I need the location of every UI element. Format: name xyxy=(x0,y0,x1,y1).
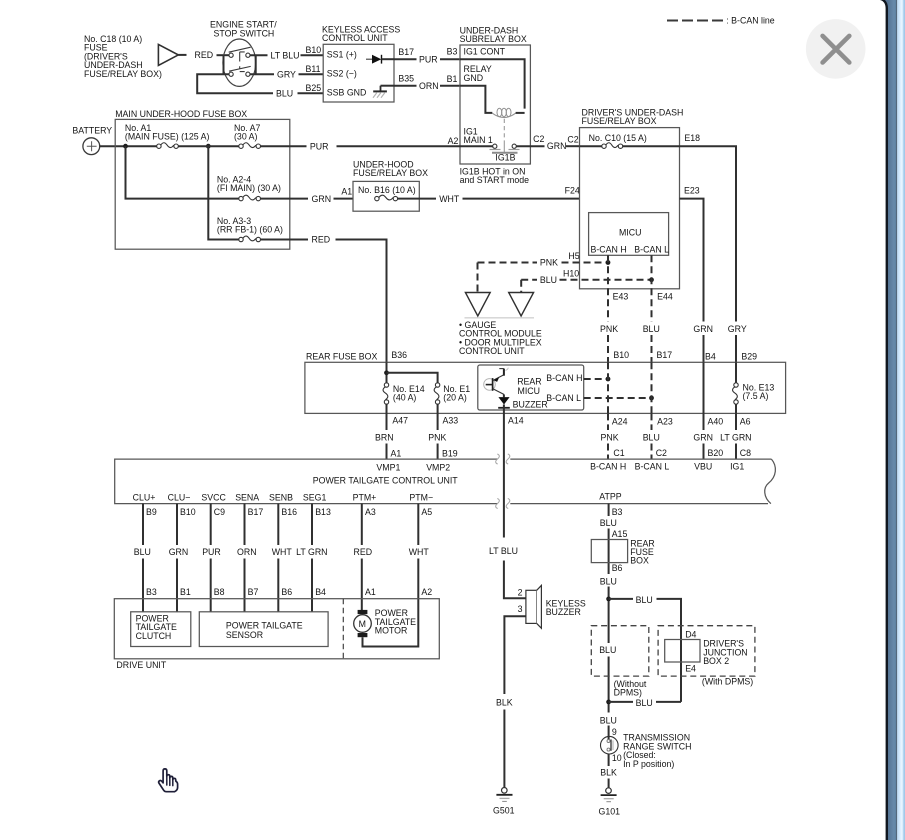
junction dot H5 xyxy=(606,260,611,265)
keyless access control unit title xyxy=(322,24,400,43)
svg-text:GRY: GRY xyxy=(277,69,296,79)
svg-text:(40 A): (40 A) xyxy=(393,393,417,403)
junction dot B-CAN L xyxy=(649,396,654,401)
fuse A1 symbol xyxy=(157,143,179,149)
svg-text:BLU: BLU xyxy=(599,645,616,655)
wire BLU branch to D4 xyxy=(609,599,681,702)
svg-text:IG1 CONT: IG1 CONT xyxy=(464,47,506,57)
switch upper link xyxy=(240,52,245,62)
svg-text:B17: B17 xyxy=(398,47,414,57)
svg-text:B10: B10 xyxy=(306,45,322,55)
junction dot BLU branch 1 xyxy=(606,597,611,602)
wire battery to box xyxy=(100,145,157,147)
switch right bus xyxy=(255,55,257,74)
driver's under-dash fuse/relay box xyxy=(580,128,680,289)
wire B17 ORN xyxy=(244,504,246,612)
wire B16 WHT xyxy=(277,504,279,612)
wire BLU dashed in rear box xyxy=(651,362,653,413)
engine start/stop switch ellipse xyxy=(223,39,256,86)
switch left bus xyxy=(223,55,225,74)
wire PNK dashed in rear box xyxy=(607,362,609,413)
power tailgate sensor box xyxy=(199,612,328,647)
svg-text:B36: B36 xyxy=(391,350,407,360)
wire A2-4 out to GRN xyxy=(261,198,309,200)
fuse A3-3 label xyxy=(217,216,283,235)
svg-text:GND: GND xyxy=(464,73,484,83)
svg-text:GRN: GRN xyxy=(169,547,189,557)
junction dot BLU branch 2 xyxy=(606,700,611,705)
ground symbol SSB GND xyxy=(373,86,387,98)
with DPMS dashed box xyxy=(658,626,755,676)
svg-text:9: 9 xyxy=(612,727,617,737)
svg-text:PNK: PNK xyxy=(600,324,618,334)
svg-text:CONTROL UNIT: CONTROL UNIT xyxy=(459,346,525,356)
wire A24 PNK dashed to C1 xyxy=(607,413,609,459)
svg-text:BOX 2: BOX 2 xyxy=(703,656,729,666)
svg-text:ATPP: ATPP xyxy=(599,491,621,501)
wire relay out C2 xyxy=(516,145,544,147)
svg-text:In P position): In P position) xyxy=(623,759,674,769)
svg-text:PTM+: PTM+ xyxy=(353,493,377,503)
wire buzzer drive to A14 xyxy=(503,405,505,456)
wire BLU L-run xyxy=(197,74,273,93)
svg-text:BLU: BLU xyxy=(540,275,557,285)
svg-text:BLK: BLK xyxy=(496,698,513,708)
svg-text:WHT: WHT xyxy=(439,194,460,204)
svg-text:POWER TAILGATE CONTROL UNIT: POWER TAILGATE CONTROL UNIT xyxy=(313,475,458,485)
wire H10 drop dashed xyxy=(520,280,522,292)
svg-text:MOTOR: MOTOR xyxy=(375,626,408,636)
svg-text:No. B16 (10 A): No. B16 (10 A) xyxy=(358,185,416,195)
wire A7 out to PUR xyxy=(261,145,307,147)
wire GRY row xyxy=(250,73,274,75)
svg-text:B17: B17 xyxy=(248,507,264,517)
svg-text:RED: RED xyxy=(354,547,373,557)
svg-text:B25: B25 xyxy=(306,83,322,93)
svg-text:2: 2 xyxy=(518,587,523,597)
svg-text:C1: C1 xyxy=(613,448,624,458)
note without DPMS xyxy=(614,679,647,698)
svg-text:WHT: WHT xyxy=(272,547,293,557)
fuse A1 label xyxy=(125,123,210,142)
label REAR MICU xyxy=(517,376,541,396)
fuse E13 symbol xyxy=(733,383,739,404)
svg-text:DPMS): DPMS) xyxy=(614,688,642,698)
svg-text:MAIN 1: MAIN 1 xyxy=(464,135,493,145)
svg-text:REAR FUSE BOX: REAR FUSE BOX xyxy=(306,352,377,362)
rear fuse box (wide) xyxy=(305,362,786,413)
svg-text:B10: B10 xyxy=(180,507,196,517)
relay actuator lower xyxy=(503,142,505,153)
svg-text:FUSE/RELAY BOX: FUSE/RELAY BOX xyxy=(353,168,428,178)
svg-text:MICU: MICU xyxy=(619,227,641,237)
fuse E14 symbol xyxy=(383,383,389,404)
svg-text:A1: A1 xyxy=(341,187,352,197)
svg-text:SS1 (+): SS1 (+) xyxy=(327,50,357,60)
rear fuse box small xyxy=(591,540,627,563)
svg-text:G501: G501 xyxy=(493,806,515,816)
wire relay gnd to coil xyxy=(460,86,492,113)
svg-text:B-CAN H: B-CAN H xyxy=(590,461,626,471)
svg-text:GRY: GRY xyxy=(728,324,747,334)
junction dot B-CAN H xyxy=(606,377,611,382)
svg-text:C2: C2 xyxy=(533,134,544,144)
svg-text:B8: B8 xyxy=(214,587,225,597)
svg-text:B35: B35 xyxy=(398,74,414,84)
fuse feed triangle symbol xyxy=(158,44,178,65)
svg-text:PUR: PUR xyxy=(419,54,438,64)
svg-text:PNK: PNK xyxy=(601,433,619,443)
wire E18 to GRY vertical xyxy=(680,146,737,321)
wire trs to BLK xyxy=(608,754,610,788)
driver's under-dash fuse/relay box title xyxy=(582,107,684,126)
svg-text:PNK: PNK xyxy=(540,258,558,268)
svg-text:(With DPMS): (With DPMS) xyxy=(702,677,753,687)
wire A40 GRN to B20 xyxy=(703,413,705,459)
under-dash subrelay box title xyxy=(460,25,527,44)
svg-text:C2: C2 xyxy=(656,448,667,458)
wire B9 BLU xyxy=(142,504,144,612)
svg-text:BOX: BOX xyxy=(630,555,649,565)
svg-text:LT BLU: LT BLU xyxy=(271,50,300,60)
transistor Q rear micu xyxy=(484,368,508,395)
wire GRN to C2 xyxy=(566,145,580,147)
svg-text:VMP1: VMP1 xyxy=(376,462,400,472)
wire WHT to F24 xyxy=(463,198,580,200)
svg-text:B3: B3 xyxy=(146,587,157,597)
svg-text:BLK: BLK xyxy=(600,767,617,777)
svg-text:B9: B9 xyxy=(146,507,157,517)
svg-text:RED: RED xyxy=(195,50,214,60)
svg-text:G101: G101 xyxy=(599,806,621,816)
svg-text:A40: A40 xyxy=(708,416,724,426)
svg-text:B-CAN H: B-CAN H xyxy=(546,373,582,383)
wire A6 LT GRN to C8 xyxy=(735,413,737,459)
wire C2 into fuse xyxy=(580,145,602,147)
svg-text:SS2 (−): SS2 (−) xyxy=(327,69,357,79)
arrow triangle gauge 1 xyxy=(465,293,490,317)
svg-text:B-CAN L: B-CAN L xyxy=(635,461,670,471)
wire buzzer pin3 to BLK xyxy=(504,616,526,787)
window edge blue strip xyxy=(881,0,905,840)
svg-text:BRN: BRN xyxy=(375,433,394,443)
junction dot H10 xyxy=(649,277,654,282)
svg-text:BLU: BLU xyxy=(643,324,660,334)
svg-text:(7.5 A): (7.5 A) xyxy=(743,391,769,401)
hop marks top edge xyxy=(496,454,510,464)
svg-text:ORN: ORN xyxy=(419,81,439,91)
wire A3 RED xyxy=(361,504,363,610)
svg-text:BLU: BLU xyxy=(643,433,660,443)
transmission range switch symbol xyxy=(601,736,619,754)
svg-text:B7: B7 xyxy=(248,587,259,597)
under-hood fuse/relay box title xyxy=(353,159,428,178)
wire E1 to A33 xyxy=(437,404,439,430)
svg-text:A23: A23 xyxy=(657,416,673,426)
keyless buzzer label xyxy=(546,598,586,617)
wire branch to E1 xyxy=(387,373,438,383)
svg-text:FUSE/RELAY BOX: FUSE/RELAY BOX xyxy=(582,116,657,126)
svg-text:B29: B29 xyxy=(741,351,757,361)
svg-text:3: 3 xyxy=(518,604,523,614)
svg-text:(FI MAIN) (30 A): (FI MAIN) (30 A) xyxy=(217,183,281,193)
svg-text:VMP2: VMP2 xyxy=(426,462,450,472)
svg-text:B-CAN L: B-CAN L xyxy=(546,393,581,403)
wire A5 WHT xyxy=(363,504,419,647)
wire ATPP B3 down xyxy=(608,504,610,737)
fuse A2-4 label xyxy=(217,174,281,193)
wire H10 dashed xyxy=(521,279,651,281)
svg-text:BLU: BLU xyxy=(600,715,617,725)
wire RED to switch xyxy=(217,54,230,56)
wire B36 into E14 xyxy=(386,362,388,383)
wire A1 to A7 xyxy=(178,145,239,147)
svg-text:E18: E18 xyxy=(684,133,700,143)
svg-text:D4: D4 xyxy=(685,630,696,640)
wire coil right leg xyxy=(516,112,525,114)
wire B-CAN L dashed to junction xyxy=(584,397,652,399)
note fuse C18 text xyxy=(84,34,162,79)
svg-text:SUBRELAY BOX: SUBRELAY BOX xyxy=(460,34,527,44)
wire E14 to A47 xyxy=(386,404,388,430)
svg-text:MAIN UNDER-HOOD FUSE BOX: MAIN UNDER-HOOD FUSE BOX xyxy=(115,109,247,119)
drive unit box xyxy=(114,599,439,659)
svg-text:GRN: GRN xyxy=(547,141,567,151)
svg-text:B1: B1 xyxy=(180,587,191,597)
svg-text:B1: B1 xyxy=(447,74,458,84)
svg-text:A3: A3 xyxy=(365,507,376,517)
fuse B16 symbol xyxy=(375,195,398,201)
svg-text:BLU: BLU xyxy=(600,576,617,586)
svg-text:B3: B3 xyxy=(612,507,623,517)
wire BLU branch return xyxy=(609,701,681,703)
branch wire to A2-4 xyxy=(126,146,239,198)
wire GRY vertical lower xyxy=(735,335,737,362)
relay contact circles xyxy=(493,144,517,148)
wire RED to rear fuse box xyxy=(336,240,387,363)
wire triangle to RED xyxy=(178,54,186,56)
svg-text:GRN: GRN xyxy=(693,324,713,334)
wire GRY to fuse E13 xyxy=(735,362,737,383)
svg-text:10: 10 xyxy=(612,753,622,763)
svg-text:CLUTCH: CLUTCH xyxy=(136,631,172,641)
relay contact bars xyxy=(490,150,520,153)
wire LT BLU through ptcu xyxy=(504,455,526,598)
svg-text:A6: A6 xyxy=(740,416,751,426)
svg-text:SEG1: SEG1 xyxy=(303,493,327,503)
power tailgate control unit box xyxy=(115,459,776,504)
ground G501 xyxy=(496,788,512,802)
svg-text:BLU: BLU xyxy=(636,595,653,605)
wire C10 to E18 xyxy=(623,145,680,147)
note IG1B HOT xyxy=(460,166,530,185)
svg-text:B3: B3 xyxy=(447,47,458,57)
svg-text:PUR: PUR xyxy=(310,141,329,151)
svg-text:B20: B20 xyxy=(708,448,724,458)
svg-text:C9: C9 xyxy=(214,507,225,517)
MICU box xyxy=(589,213,669,256)
wire B-CAN L vertical dashed xyxy=(651,255,653,362)
svg-text:H10: H10 xyxy=(563,268,579,278)
wire A2 into relay xyxy=(337,145,493,147)
svg-text:BLU: BLU xyxy=(134,547,151,557)
engine start/stop switch title xyxy=(210,20,277,39)
svg-text:B10: B10 xyxy=(613,350,629,360)
svg-text:PNK: PNK xyxy=(428,433,446,443)
svg-text:E4: E4 xyxy=(685,663,696,673)
under-dash subrelay box xyxy=(460,45,530,164)
svg-text:F24: F24 xyxy=(565,186,580,196)
wire B17 PUR xyxy=(394,58,417,60)
wire IG1 CONT to coil xyxy=(460,59,525,108)
svg-text:RED: RED xyxy=(312,235,331,245)
junction dot battery bus 1 xyxy=(123,144,128,149)
svg-text:IG1: IG1 xyxy=(730,461,744,471)
svg-text:A2: A2 xyxy=(448,136,459,146)
svg-text:(30 A): (30 A) xyxy=(234,132,258,142)
svg-text:SENB: SENB xyxy=(269,493,293,503)
label RELAY GND xyxy=(464,64,492,83)
arrow triangle gauge 2 xyxy=(509,293,534,317)
svg-text:FUSE/RELAY BOX): FUSE/RELAY BOX) xyxy=(84,69,162,79)
wire B-CAN H vertical dashed xyxy=(607,255,609,362)
wire B16 to WHT xyxy=(398,198,436,200)
battery symbol xyxy=(83,138,100,155)
fuse E1 label xyxy=(443,384,470,403)
wire A33 PNK to VMP2 xyxy=(437,444,439,460)
svg-text:CONTROL UNIT: CONTROL UNIT xyxy=(322,33,388,43)
wire H5 drop dashed xyxy=(477,263,479,293)
svg-text:H5: H5 xyxy=(568,251,579,261)
rear fuse box small label xyxy=(630,538,654,565)
motor M symbol xyxy=(354,610,372,637)
fuse E1 symbol xyxy=(434,383,440,404)
close button xyxy=(806,19,866,79)
wire A23 BLU dashed to C2 xyxy=(651,413,653,459)
wire emitter to diode xyxy=(503,394,505,397)
wire GRN through rear box xyxy=(703,362,705,413)
svg-text:(MAIN FUSE) (125 A): (MAIN FUSE) (125 A) xyxy=(125,132,210,142)
svg-text:DRIVE UNIT: DRIVE UNIT xyxy=(116,660,166,670)
mouse cursor hand xyxy=(159,769,178,792)
svg-text:B4: B4 xyxy=(705,351,716,361)
svg-text:WHT: WHT xyxy=(409,547,430,557)
svg-text:and START mode: and START mode xyxy=(460,175,530,185)
svg-text:BLU: BLU xyxy=(600,518,617,528)
drive unit divider dashed xyxy=(342,599,344,659)
svg-text:BUZZER: BUZZER xyxy=(546,607,581,617)
power tailgate sensor label xyxy=(226,620,303,639)
svg-text:BLU: BLU xyxy=(636,698,653,708)
under-hood fuse/relay box xyxy=(353,181,419,211)
fuse A2-4 symbol xyxy=(239,195,261,201)
fuse E13 label xyxy=(743,382,775,401)
wire GRY to B11 xyxy=(299,73,324,75)
svg-text:M: M xyxy=(359,619,366,629)
svg-text:SVCC: SVCC xyxy=(201,493,226,503)
switch upper blade xyxy=(229,47,251,52)
svg-text:IG1B: IG1B xyxy=(495,152,515,162)
wire PUR to B3 xyxy=(440,58,460,60)
svg-text:BUZZER: BUZZER xyxy=(513,400,548,410)
legend B-CAN dashed line xyxy=(667,19,723,21)
ground G101 xyxy=(601,788,617,802)
switch contact circles xyxy=(229,53,250,76)
svg-text:B17: B17 xyxy=(657,350,673,360)
transmission range switch label xyxy=(623,733,691,769)
wire H5 dashed xyxy=(478,262,609,264)
power tailgate clutch label xyxy=(136,613,177,641)
svg-text:A24: A24 xyxy=(612,416,628,426)
fuse E14 label xyxy=(393,384,425,403)
svg-text:LT GRN: LT GRN xyxy=(296,547,327,557)
svg-text:BATTERY: BATTERY xyxy=(72,126,112,136)
svg-text:ORN: ORN xyxy=(237,547,257,557)
svg-text:: B-CAN line: : B-CAN line xyxy=(726,15,775,25)
svg-text:LT BLU: LT BLU xyxy=(489,546,518,556)
junction dot E14 branch xyxy=(384,370,389,375)
svg-text:GRN: GRN xyxy=(693,433,713,443)
svg-text:A5: A5 xyxy=(421,507,432,517)
svg-text:VBU: VBU xyxy=(694,461,712,471)
svg-text:PTM−: PTM− xyxy=(409,493,433,503)
main under-hood fuse box xyxy=(115,119,290,249)
wire GRN to A1 pin xyxy=(334,198,354,200)
svg-text:B4: B4 xyxy=(315,587,326,597)
fuse A3-3 symbol xyxy=(239,236,261,242)
diode D in keyless unit xyxy=(366,55,394,64)
svg-text:SENA: SENA xyxy=(235,493,259,503)
svg-text:REAR: REAR xyxy=(517,376,541,386)
rear MICU box xyxy=(478,365,584,410)
diode buzzer driver xyxy=(498,397,510,408)
without DPMS dashed box xyxy=(591,626,649,676)
gauge control module note xyxy=(459,320,542,356)
wire SSB GND to B35 xyxy=(381,85,395,87)
svg-text:A2: A2 xyxy=(421,587,432,597)
svg-text:No. C10 (15 A): No. C10 (15 A) xyxy=(589,133,647,143)
wire C9 PUR xyxy=(210,504,212,612)
svg-text:PUR: PUR xyxy=(202,547,221,557)
svg-text:STOP SWITCH: STOP SWITCH xyxy=(214,28,275,38)
wire LT BLU to B10 xyxy=(301,54,324,56)
svg-text:E44: E44 xyxy=(657,292,673,302)
svg-text:B-CAN H: B-CAN H xyxy=(591,244,627,254)
wire B-CAN H dashed to junction xyxy=(584,378,608,380)
svg-text:CLU−: CLU− xyxy=(168,493,191,503)
svg-text:B13: B13 xyxy=(315,507,331,517)
wire ORN to B1 xyxy=(440,85,460,87)
power tailgate motor label xyxy=(375,608,416,636)
svg-text:(RR FB-1) (60 A): (RR FB-1) (60 A) xyxy=(217,225,283,235)
wire B35 ORN xyxy=(394,85,417,87)
wire BLU to B25 xyxy=(298,92,324,94)
svg-text:B-CAN L: B-CAN L xyxy=(634,244,669,254)
fuse A7 label xyxy=(234,123,261,142)
svg-text:BLU: BLU xyxy=(276,88,293,98)
svg-text:C2: C2 xyxy=(567,135,578,145)
wire A3-3 out to RED xyxy=(261,239,309,241)
svg-text:GRN: GRN xyxy=(312,194,332,204)
relay coil xyxy=(492,108,515,117)
power tailgate clutch box xyxy=(131,612,191,647)
svg-text:B19: B19 xyxy=(442,449,458,459)
keyless access control unit box xyxy=(323,44,394,102)
wire LT BLU row xyxy=(250,54,268,56)
svg-text:A47: A47 xyxy=(392,415,408,425)
wire B13 LT GRN xyxy=(311,504,313,612)
driver's junction box 2 label xyxy=(703,639,747,667)
